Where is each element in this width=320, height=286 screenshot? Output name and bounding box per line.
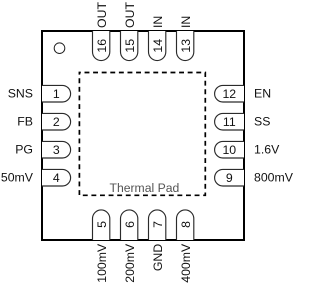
svg-text:12: 12: [222, 87, 236, 101]
svg-text:SNS: SNS: [8, 87, 33, 101]
svg-text:14: 14: [151, 39, 165, 53]
pin 3: [42, 141, 71, 158]
svg-text:50mV: 50mV: [1, 171, 34, 185]
svg-text:IN: IN: [151, 16, 165, 28]
pin 2: [42, 113, 71, 130]
pin 13: [177, 31, 194, 61]
svg-text:13: 13: [179, 39, 193, 53]
svg-text:OUT: OUT: [95, 2, 109, 28]
svg-text:8: 8: [179, 221, 193, 228]
svg-text:7: 7: [151, 221, 165, 228]
pin 8: [177, 210, 194, 240]
svg-text:6: 6: [123, 221, 137, 228]
pin 12: [215, 85, 244, 102]
svg-text:5: 5: [95, 221, 109, 228]
svg-text:PG: PG: [15, 143, 33, 157]
svg-text:Thermal Pad: Thermal Pad: [110, 181, 180, 195]
svg-text:4: 4: [53, 171, 60, 185]
pin 4: [42, 169, 71, 186]
pin 9: [215, 169, 244, 186]
svg-text:1: 1: [53, 87, 60, 101]
svg-text:OUT: OUT: [123, 2, 137, 28]
svg-text:400mV: 400mV: [179, 243, 193, 283]
svg-text:15: 15: [123, 39, 137, 53]
pin-1 indicator circle: [54, 43, 65, 54]
pin 10: [215, 141, 244, 158]
pin 16: [93, 31, 110, 61]
svg-text:EN: EN: [254, 87, 271, 101]
svg-text:IN: IN: [179, 16, 193, 28]
svg-text:3: 3: [53, 143, 60, 157]
pin 14: [149, 31, 166, 61]
svg-text:800mV: 800mV: [254, 171, 293, 185]
svg-text:9: 9: [226, 171, 233, 185]
pin 7: [149, 210, 166, 240]
svg-text:SS: SS: [254, 115, 270, 129]
pin 15: [121, 31, 138, 61]
svg-text:11: 11: [223, 115, 236, 129]
thermal pad (dashed outline): [79, 73, 205, 196]
package outline U1 (QFN-16): [42, 31, 244, 240]
pin 5: [93, 210, 110, 240]
svg-text:FB: FB: [17, 115, 33, 129]
svg-text:GND: GND: [151, 244, 165, 271]
svg-text:16: 16: [95, 39, 109, 53]
svg-text:2: 2: [53, 115, 60, 129]
pin 6: [121, 210, 138, 240]
pin 11: [215, 113, 244, 130]
svg-text:100mV: 100mV: [95, 243, 109, 283]
svg-text:10: 10: [222, 143, 236, 157]
svg-text:1.6V: 1.6V: [254, 143, 280, 157]
pin 1: [42, 85, 71, 102]
svg-text:200mV: 200mV: [123, 243, 137, 283]
